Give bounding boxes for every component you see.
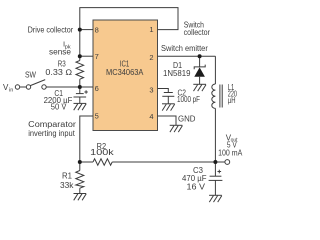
svg-text:collector: collector	[184, 28, 211, 37]
svg-text:2: 2	[149, 53, 153, 62]
svg-text:50 V: 50 V	[51, 103, 67, 112]
svg-text:µH: µH	[228, 96, 236, 105]
svg-text:1000 pF: 1000 pF	[177, 95, 200, 104]
svg-text:sense: sense	[49, 48, 72, 57]
svg-text:3: 3	[149, 86, 153, 95]
svg-text:7: 7	[95, 52, 99, 61]
svg-text:1: 1	[149, 25, 153, 34]
svg-text:16 V: 16 V	[187, 183, 206, 192]
svg-text:Drive collector: Drive collector	[28, 26, 74, 35]
svg-text:8: 8	[95, 25, 99, 34]
svg-text:6: 6	[95, 84, 99, 93]
svg-text:33k: 33k	[60, 181, 75, 190]
svg-text:in: in	[9, 87, 13, 93]
svg-text:100k: 100k	[90, 148, 115, 157]
svg-text:100 mA: 100 mA	[218, 148, 243, 157]
svg-text:Switch emitter: Switch emitter	[161, 44, 208, 53]
svg-text:MC34063A: MC34063A	[106, 68, 144, 77]
svg-text:5: 5	[95, 112, 99, 121]
svg-text:GND: GND	[178, 115, 196, 124]
svg-text:R1: R1	[62, 171, 73, 180]
svg-text:SW: SW	[25, 71, 36, 80]
svg-text:1N5819: 1N5819	[163, 69, 191, 78]
svg-text:0.33 Ω: 0.33 Ω	[45, 68, 72, 77]
svg-text:4: 4	[149, 112, 153, 121]
svg-text:inverting input: inverting input	[28, 129, 75, 138]
